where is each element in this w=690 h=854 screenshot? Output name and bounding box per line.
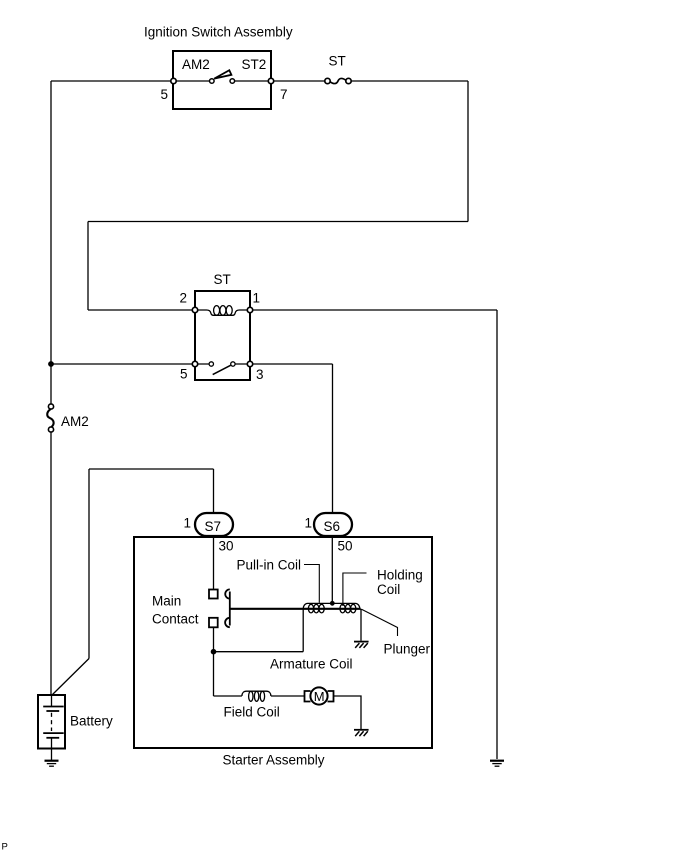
main contact fixed square lower	[209, 618, 218, 628]
main contact movable bridge	[225, 589, 230, 627]
pin 7 label	[280, 87, 288, 102]
ignition switch internal wires	[176, 80, 269, 82]
svg-text:1: 1	[184, 516, 192, 531]
fuse AM2	[47, 404, 53, 432]
junction: terminal 50 on coil top line	[330, 601, 335, 606]
starter assembly box	[134, 537, 432, 748]
battery symbol	[43, 695, 64, 749]
svg-text:Holding: Holding	[377, 568, 423, 583]
svg-text:Field Coil: Field Coil	[224, 705, 280, 720]
wire: relay pin 3 to S6 drop	[253, 363, 333, 365]
fuse ST	[325, 78, 351, 83]
pull-in coil label and callout	[237, 558, 320, 603]
ignition switch terminal pin 7	[268, 78, 273, 83]
ignition switch movable blade (open)	[214, 70, 231, 78]
S6 pin 1 label	[305, 516, 313, 531]
relay box ST	[195, 291, 250, 380]
ground (right rail, earth)	[490, 761, 504, 767]
svg-text:Contact: Contact	[152, 612, 199, 627]
wire: down to connector S7	[213, 469, 215, 513]
main contact label	[152, 594, 199, 627]
relay pin 5 label	[180, 367, 188, 382]
motor M	[305, 687, 334, 704]
field coil label	[224, 705, 280, 720]
battery label	[70, 714, 113, 729]
relay coil terminal pin 2	[192, 307, 197, 312]
ignition switch contact ST2 (fixed)	[230, 79, 235, 84]
plunger shaft bar	[230, 608, 361, 610]
relay coil	[198, 306, 248, 316]
battery cable horizontal	[89, 468, 214, 470]
svg-text:Coil: Coil	[377, 582, 400, 597]
wire: S7 into starter (terminal 30)	[213, 536, 215, 589]
wire: main contact lower to armature node	[213, 627, 215, 696]
junction on left rail	[48, 361, 54, 367]
relay coil terminal pin 1	[247, 307, 252, 312]
svg-text:50: 50	[338, 539, 353, 554]
svg-text:S7: S7	[205, 519, 222, 534]
svg-text:S6: S6	[324, 519, 341, 534]
svg-text:30: 30	[219, 539, 234, 554]
wire: fuse ST to right drop	[351, 80, 468, 82]
svg-text:AM2: AM2	[61, 414, 89, 429]
svg-text:Armature Coil: Armature Coil	[270, 657, 353, 672]
svg-text:AM2: AM2	[182, 57, 210, 72]
wire: battery feed to ignition switch pin 5	[51, 80, 171, 82]
pin 5 label	[161, 87, 169, 102]
wire: armature branch up to pull-in coil	[302, 609, 304, 652]
starter assembly label	[223, 753, 325, 768]
svg-text:Starter Assembly: Starter Assembly	[223, 753, 325, 768]
svg-text:1: 1	[253, 291, 261, 306]
label ST2 (ignition switch contact)	[242, 57, 267, 72]
connector S7	[195, 513, 233, 536]
junction: armature branch	[211, 649, 217, 655]
relay contact wires	[198, 363, 248, 365]
holding coil label and callout	[343, 568, 423, 607]
wire: S6 vertical drop	[332, 364, 334, 513]
wire: motor to chassis ground	[334, 696, 362, 729]
svg-text:ST: ST	[214, 272, 231, 287]
svg-text:P: P	[2, 842, 8, 853]
page marker P	[2, 842, 8, 853]
svg-text:5: 5	[161, 87, 169, 102]
wire: relay pin 1 to far right	[253, 309, 497, 311]
svg-text:Main: Main	[152, 594, 181, 609]
svg-text:3: 3	[256, 367, 264, 382]
left rail continues to battery	[50, 432, 52, 695]
wire: battery to ground	[51, 749, 53, 761]
wire: S6 into starter (terminal 50)	[331, 536, 333, 603]
wire: far right vertical to ground	[496, 310, 498, 759]
relay ST label	[214, 272, 231, 287]
battery cable diagonal	[52, 659, 89, 696]
ground (battery, earth)	[45, 761, 59, 767]
wire: pin 7 to fuse ST	[274, 80, 325, 82]
wire: holding coil to chassis ground	[360, 609, 362, 641]
S7 pin 1 label	[184, 516, 192, 531]
title: Ignition Switch Assembly	[144, 25, 293, 40]
wire: to field coil	[214, 695, 242, 697]
svg-text:M: M	[314, 689, 325, 704]
svg-text:Plunger: Plunger	[384, 642, 431, 657]
terminal 50 label	[338, 539, 353, 554]
pull-in coil	[303, 603, 339, 612]
relay contact fixed point right	[231, 362, 235, 366]
relay pin 1 label	[253, 291, 261, 306]
relay contact terminal pin 5	[192, 361, 197, 366]
holding coil	[339, 603, 360, 612]
svg-text:2: 2	[180, 291, 188, 306]
main contact fixed square upper	[209, 590, 218, 599]
svg-text:ST2: ST2	[242, 57, 267, 72]
svg-text:Ignition Switch Assembly: Ignition Switch Assembly	[144, 25, 293, 40]
svg-text:1: 1	[305, 516, 313, 531]
relay pin 2 label	[180, 291, 188, 306]
field coil	[242, 691, 271, 701]
wire: armature branch horizontal	[214, 651, 304, 653]
chassis ground (holding coil)	[354, 642, 369, 648]
svg-text:Battery: Battery	[70, 714, 113, 729]
wire: left rail to relay pin 5	[51, 363, 193, 365]
label AM2 (ignition switch contact)	[182, 57, 210, 72]
svg-text:5: 5	[180, 367, 188, 382]
armature coil label	[270, 657, 353, 672]
chassis ground (motor)	[354, 730, 369, 736]
relay pin 3 label	[256, 367, 264, 382]
left rail vertical (battery feed)	[50, 81, 52, 404]
wire: right vertical drop	[467, 81, 469, 222]
relay movable blade (open)	[213, 365, 231, 374]
terminal 30 label	[219, 539, 234, 554]
battery cable vertical	[88, 469, 90, 659]
fuse AM2 label	[61, 414, 89, 429]
connector S6	[314, 513, 352, 536]
ignition switch contact AM2 (fixed)	[210, 79, 215, 84]
wire: down to relay coil pin 2	[87, 222, 89, 311]
relay contact terminal pin 3	[247, 361, 252, 366]
wire: horizontal return	[88, 221, 468, 223]
fuse ST label	[329, 54, 346, 69]
svg-text:ST: ST	[329, 54, 346, 69]
svg-text:Pull-in Coil: Pull-in Coil	[237, 558, 302, 573]
wire: field coil to motor	[271, 695, 304, 697]
ignition switch terminal pin 5	[171, 78, 176, 83]
svg-text:7: 7	[280, 87, 288, 102]
ignition switch box	[173, 51, 271, 109]
battery box	[38, 695, 65, 749]
plunger label and callout	[362, 609, 431, 656]
relay contact fixed point left	[209, 362, 213, 366]
wire: to relay pin 2	[88, 309, 193, 311]
